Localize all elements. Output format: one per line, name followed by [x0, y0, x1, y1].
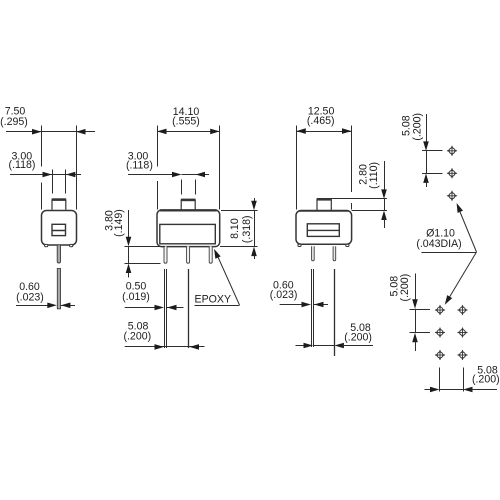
dimension 2.80 (.110) vertical [331, 161, 387, 228]
svg-text:(.023): (.023) [16, 292, 44, 304]
view1 body [42, 211, 77, 246]
view3 actuator [317, 199, 332, 210]
view2 pin 3 [209, 246, 212, 263]
view2 epoxy inner rect [160, 224, 216, 243]
view1 pin lower segment [57, 269, 60, 309]
dimension 5.08 (.200) view3 [296, 322, 374, 348]
hole C [447, 191, 458, 202]
view2 actuator [181, 200, 196, 210]
svg-text:(.200): (.200) [399, 274, 411, 302]
view3 slot [307, 224, 339, 237]
view3 pin 1 [312, 246, 315, 261]
dimension 5.08 (.200) bottom left vertical [389, 274, 430, 352]
svg-text:(.118): (.118) [9, 159, 36, 171]
dimension 5.08 (.200) bottom right horizontal [425, 364, 500, 392]
svg-text:(.023): (.023) [270, 289, 298, 301]
svg-text:(.118): (.118) [126, 160, 153, 172]
hole E2 [457, 327, 468, 338]
svg-text:(.465): (.465) [307, 115, 335, 127]
svg-text:(.043DIA): (.043DIA) [416, 238, 461, 250]
view2 pin 2 [187, 246, 190, 263]
dimension 3.00 (.118) view2 [126, 151, 209, 195]
view3 body top bold edge [299, 210, 349, 212]
view2 pin1 edge extension lines [164, 269, 166, 348]
hole diameter label Ø1.10 (.043DIA) with leaders [416, 202, 476, 306]
view3 foot left [298, 244, 301, 246]
dimension 7.50 (.295) [0, 106, 95, 210]
view3 pin1 edge extension lines [311, 269, 313, 347]
view2 body top bold edge [160, 209, 217, 211]
svg-text:(.295): (.295) [0, 116, 28, 128]
hole E1 [435, 327, 446, 338]
svg-text:(.200): (.200) [411, 113, 423, 141]
svg-text:(.200): (.200) [123, 331, 151, 343]
dimension 14.10 (.555) [157, 106, 220, 210]
view1 foot right [70, 244, 73, 246]
svg-text:(.200): (.200) [344, 332, 372, 344]
dimension 0.60 (.023) view3 [270, 280, 328, 308]
view2 pin 1 [164, 246, 167, 263]
view2 body [157, 210, 220, 247]
hole D2 [457, 305, 468, 316]
dimension 5.08 (.200) view2 [123, 321, 204, 350]
view3 body [296, 211, 352, 245]
hole F1 [435, 350, 446, 361]
svg-text:(.110): (.110) [368, 162, 380, 189]
hole F2 [457, 350, 468, 361]
dimension 8.10 (.318) vertical right [220, 198, 258, 259]
view3 pin2 center extension line [334, 269, 336, 356]
svg-text:(.019): (.019) [122, 291, 150, 303]
svg-text:(.149): (.149) [113, 209, 125, 237]
dimension 0.50 (.019) [122, 281, 183, 311]
view3 foot right [346, 244, 349, 246]
view2 pin2 center extension line [188, 269, 190, 348]
dimension 3.00 (.118) view1 [9, 151, 81, 194]
view1 pin upper segment [57, 245, 60, 263]
dimension 12.50 (.465) [296, 105, 351, 209]
dimension 5.08 (.200) top right vertical [401, 113, 443, 187]
EPOXY label with leader [195, 248, 240, 306]
top hole column: hole A [447, 146, 458, 157]
svg-text:8.10: 8.10 [229, 218, 241, 239]
view1 foot left [45, 244, 48, 246]
dimension 0.60 (.023) view1 [16, 281, 75, 308]
svg-text:EPOXY: EPOXY [195, 294, 232, 306]
svg-text:(.200): (.200) [472, 374, 500, 386]
dimension 3.80 (.149) vertical left [104, 209, 166, 277]
view1 actuator [52, 200, 67, 210]
bottom hole grid: hole D1 [435, 305, 446, 316]
view3 pin 2 [333, 246, 336, 261]
view1 slot [52, 224, 66, 235]
svg-text:(.555): (.555) [172, 116, 200, 128]
svg-text:(.318): (.318) [241, 215, 253, 243]
hole B [447, 168, 458, 179]
